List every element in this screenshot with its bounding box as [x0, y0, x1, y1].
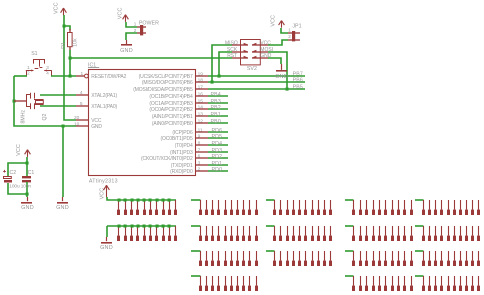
junction bus	[162, 225, 165, 228]
pin 14 (OC0A/PCINT2)PB2	[195, 108, 208, 110]
svg-text:20: 20	[74, 115, 80, 121]
wire GND rail to IC pin 10	[14, 76, 76, 126]
svg-text:(OC1B/PCINT4)PB4: (OC1B/PCINT4)PB4	[149, 94, 193, 100]
connector SV5	[191, 199, 201, 201]
svg-text:100n: 100n	[21, 183, 32, 189]
svg-text:PD4: PD4	[212, 141, 223, 147]
junction PB6/MISO	[211, 81, 214, 84]
pin 5 XTAL1	[76, 105, 88, 107]
svg-text:R1: R1	[61, 42, 67, 49]
supply VCC (decoupling)	[25, 150, 31, 157]
svg-text:MISO: MISO	[225, 41, 238, 47]
wire GND bus drop	[106, 226, 108, 237]
connector SV16	[345, 275, 354, 277]
pin 11 (ICP)PD6	[195, 131, 208, 133]
wire PB6 to MISO	[212, 45, 232, 82]
svg-text:10: 10	[74, 121, 80, 127]
connector SV15	[345, 250, 354, 252]
svg-text:PB6: PB6	[293, 78, 303, 84]
pin 8 (T0)PD4	[195, 144, 208, 146]
wire net PD1	[208, 164, 228, 166]
junction bus	[131, 199, 134, 202]
wire VCC bus	[107, 197, 176, 200]
svg-text:(OC0A/PCINT2)PB2: (OC0A/PCINT2)PB2	[149, 107, 193, 113]
svg-text:GND: GND	[91, 124, 102, 130]
svg-text:16: 16	[198, 91, 204, 97]
svg-text:XTAL2(PA1): XTAL2(PA1)	[91, 93, 117, 99]
wire PB7 to SCK	[219, 52, 232, 76]
ground (decoupling)	[27, 197, 29, 201]
wire VCC rail to IC pin 20	[64, 15, 76, 120]
svg-text:(CKOUT/XCK/INT0)PD2: (CKOUT/XCK/INT0)PD2	[141, 156, 193, 162]
wire SV2 VCC to JP1 pin2	[268, 40, 288, 45]
svg-text:(AIN0/PCINT0)PB0: (AIN0/PCINT0)PB0	[152, 121, 193, 127]
pin 17 (MOSI/DI/SDA/PCINT5)PB5	[195, 88, 208, 90]
svg-text:S1: S1	[31, 51, 37, 57]
wire net PD2	[208, 157, 228, 159]
connector SV14	[345, 225, 354, 227]
svg-text:GND: GND	[100, 245, 113, 251]
svg-text:PD0: PD0	[212, 167, 223, 173]
svg-text:6: 6	[198, 153, 201, 159]
wire net PD4	[208, 144, 228, 146]
connector SV3 VCC pins	[118, 200, 120, 210]
wire net PB3	[208, 102, 228, 104]
resonator Q2 8MHz	[14, 100, 27, 102]
svg-text:14: 14	[198, 104, 204, 110]
supply VCC (bus)	[104, 185, 110, 197]
supply VCC (top-left)	[61, 8, 67, 15]
junction VCC/R1	[63, 25, 66, 28]
svg-text:(AIN1/PCINT1)PB1: (AIN1/PCINT1)PB1	[152, 114, 193, 120]
svg-text:2: 2	[288, 34, 291, 39]
svg-text:(RXD)PD0: (RXD)PD0	[170, 169, 193, 175]
pin 4 XTAL2	[76, 94, 88, 96]
wire VCC to R1 top	[64, 26, 70, 30]
wire S1 right to IC pin1	[51, 75, 76, 77]
wire net PD0	[208, 170, 228, 172]
junction PB7/SCK	[218, 75, 221, 78]
junction bus	[118, 225, 121, 228]
pin 3 (TXD)PD1	[195, 164, 208, 166]
pin 7 (INT1)PD3	[195, 151, 208, 153]
wire net PB2	[208, 108, 228, 110]
svg-text:C2: C2	[10, 170, 17, 176]
connector SV13	[345, 199, 354, 201]
pin 19 (UCSK/SCL/PCINT7)PB7	[195, 75, 208, 77]
wire GND down	[62, 126, 64, 197]
pin 20 VCC	[76, 119, 88, 121]
svg-text:8MHz: 8MHz	[21, 110, 27, 124]
svg-text:3: 3	[46, 65, 49, 70]
svg-text:1: 1	[134, 22, 137, 27]
pin 6 (CKOUT/XCK/INT0)PD2	[195, 157, 208, 159]
wire MOSI to PB5	[268, 52, 287, 89]
connector SV8	[191, 275, 201, 277]
svg-text:(T0)PD4: (T0)PD4	[175, 143, 193, 149]
pin 16 (OC1B/PCINT4)PB4	[195, 95, 208, 97]
svg-text:8: 8	[198, 140, 201, 146]
svg-text:18: 18	[198, 77, 204, 83]
ground (SV2)	[281, 64, 283, 70]
ground (bus)	[106, 237, 108, 241]
svg-text:SV2: SV2	[247, 66, 257, 72]
ground (POWER)	[126, 40, 128, 44]
svg-text:PB0: PB0	[211, 119, 221, 125]
junction bus	[168, 199, 171, 202]
junction GND rail branch	[62, 125, 65, 128]
wire net PD3	[208, 151, 228, 153]
supply VCC (JP1)	[279, 21, 285, 28]
ground (below IC)	[62, 197, 64, 201]
svg-text:9: 9	[198, 133, 201, 139]
svg-text:100u: 100u	[9, 183, 20, 189]
connector SV17	[415, 199, 424, 201]
wire VCC to JP1 pin1	[281, 28, 288, 33]
svg-text:17: 17	[198, 84, 204, 90]
svg-text:7: 7	[198, 147, 201, 153]
wire VCC to C1	[26, 157, 28, 176]
svg-text:2: 2	[198, 166, 201, 172]
svg-text:PD5: PD5	[212, 134, 223, 140]
connector SV6	[191, 225, 201, 227]
svg-text:11: 11	[198, 127, 203, 133]
svg-text:Q2: Q2	[42, 113, 48, 120]
svg-text:PB2: PB2	[211, 105, 221, 111]
pin 12 (AIN0/PCINT0)PB0	[195, 122, 208, 124]
wire net PB1	[208, 115, 228, 117]
svg-text:1: 1	[27, 65, 30, 70]
junction C1/C2 bottom	[26, 193, 29, 196]
resistor R1	[69, 29, 71, 32]
junction bus	[168, 225, 171, 228]
junction bus	[124, 225, 127, 228]
junction bus	[118, 199, 121, 202]
supply VCC (POWER)	[123, 15, 129, 22]
wire VCC to POWER pin1	[126, 22, 137, 27]
svg-text:VCC: VCC	[16, 144, 22, 156]
svg-text:5: 5	[80, 101, 83, 107]
connector SV18	[415, 225, 424, 227]
connector SV9	[266, 199, 275, 201]
svg-text:(MOSI/DI/SDA/PCINT5)PB5: (MOSI/DI/SDA/PCINT5)PB5	[133, 87, 193, 93]
pin 9 (OC0B/T1)PD5	[195, 137, 208, 139]
svg-text:10k: 10k	[72, 38, 78, 47]
junction bus	[143, 225, 146, 228]
svg-text:VCC: VCC	[54, 2, 60, 14]
junction bus	[156, 199, 159, 202]
svg-text:13: 13	[198, 111, 204, 117]
wire RST net to SV2	[70, 57, 232, 59]
wire C1 bottom to GND	[26, 182, 28, 197]
wire net PD5	[208, 137, 228, 139]
svg-text:12: 12	[198, 118, 204, 124]
pin 10 GND	[76, 125, 88, 127]
svg-text:15: 15	[198, 98, 204, 104]
junction RESET/pin1-wire	[69, 75, 72, 78]
svg-text:19: 19	[198, 71, 204, 77]
connector SV2	[241, 40, 261, 65]
wire resonator to XTAL1	[40, 105, 76, 107]
svg-text:RST: RST	[227, 53, 237, 59]
junction PB5/MOSI	[286, 88, 289, 91]
svg-text:C1: C1	[28, 170, 35, 176]
svg-text:ATtiny2313: ATtiny2313	[89, 178, 118, 184]
junction GND/resonator	[13, 100, 16, 103]
svg-text:VCC: VCC	[100, 188, 106, 200]
svg-text:PB7: PB7	[293, 71, 303, 77]
junction bus	[149, 225, 152, 228]
svg-text:PD2: PD2	[212, 154, 223, 160]
capacitor C2 100u	[3, 170, 6, 173]
connector SV10	[266, 225, 275, 227]
wire GND bus	[107, 225, 176, 227]
pin 1 RESET	[76, 75, 84, 77]
svg-text:1: 1	[81, 71, 84, 77]
pin 15 (OC1A/PCINT3)PB3	[195, 102, 208, 104]
junction bus	[137, 225, 140, 228]
svg-text:VCC: VCC	[270, 15, 276, 27]
op IC1 box	[89, 70, 196, 176]
wire net PB4	[208, 95, 228, 97]
junction bus	[143, 199, 146, 202]
wire C2 bottom	[8, 183, 27, 194]
svg-text:JP1: JP1	[292, 24, 301, 30]
pin 18 (MISO/DO/PCINT6)PB6	[195, 81, 208, 83]
svg-text:GND: GND	[275, 74, 288, 80]
wire net PB7	[208, 75, 305, 77]
svg-text:RESET/DW/PA2: RESET/DW/PA2	[91, 74, 126, 80]
junction bus	[162, 199, 165, 202]
junction bus	[124, 199, 127, 202]
connector SV20	[415, 275, 424, 277]
wire net PB5	[208, 88, 305, 90]
svg-text:GND: GND	[120, 48, 133, 54]
svg-text:3: 3	[198, 160, 201, 166]
junction bus	[137, 199, 140, 202]
svg-text:VCC: VCC	[118, 8, 124, 20]
connector SV7	[191, 250, 201, 252]
connector SV11	[266, 250, 275, 252]
wire net PD6	[208, 131, 228, 133]
wire R1 bottom to RESET net	[69, 50, 71, 76]
junction RESET/RST-wire	[69, 57, 72, 60]
svg-text:PB4: PB4	[211, 92, 221, 98]
svg-text:PB1: PB1	[211, 112, 221, 118]
pin 2 (RXD)PD0	[195, 170, 208, 172]
junction bus	[156, 225, 159, 228]
wire POWER pin2 to GND	[126, 33, 137, 40]
connector SV19	[415, 250, 424, 252]
svg-text:PB5: PB5	[293, 85, 303, 91]
wire resonator to XTAL2	[40, 94, 76, 96]
svg-text:(OC0B/T1)PD5: (OC0B/T1)PD5	[160, 136, 192, 142]
wire S1 left to GND rail	[14, 75, 27, 77]
wire net PB6	[208, 81, 305, 83]
wire to C2 top	[8, 163, 27, 177]
svg-text:GND: GND	[56, 205, 69, 211]
junction bus	[149, 199, 152, 202]
connector SV4 GND pins	[118, 226, 120, 236]
wire net PB0	[208, 122, 228, 124]
svg-text:1: 1	[288, 27, 291, 32]
junction C1/C2 top	[26, 162, 29, 165]
junction bus	[131, 225, 134, 228]
svg-text:4: 4	[80, 90, 83, 96]
pin 13 (AIN1/PCINT1)PB1	[195, 115, 208, 117]
svg-text:GND: GND	[21, 205, 34, 211]
wire SV2 GND	[268, 58, 281, 64]
svg-text:4: 4	[46, 71, 49, 76]
svg-text:XTAL1(PA0): XTAL1(PA0)	[91, 104, 117, 110]
svg-text:(MISO/DO/PCINT6)PB6: (MISO/DO/PCINT6)PB6	[142, 80, 193, 86]
svg-text:2: 2	[27, 71, 30, 76]
